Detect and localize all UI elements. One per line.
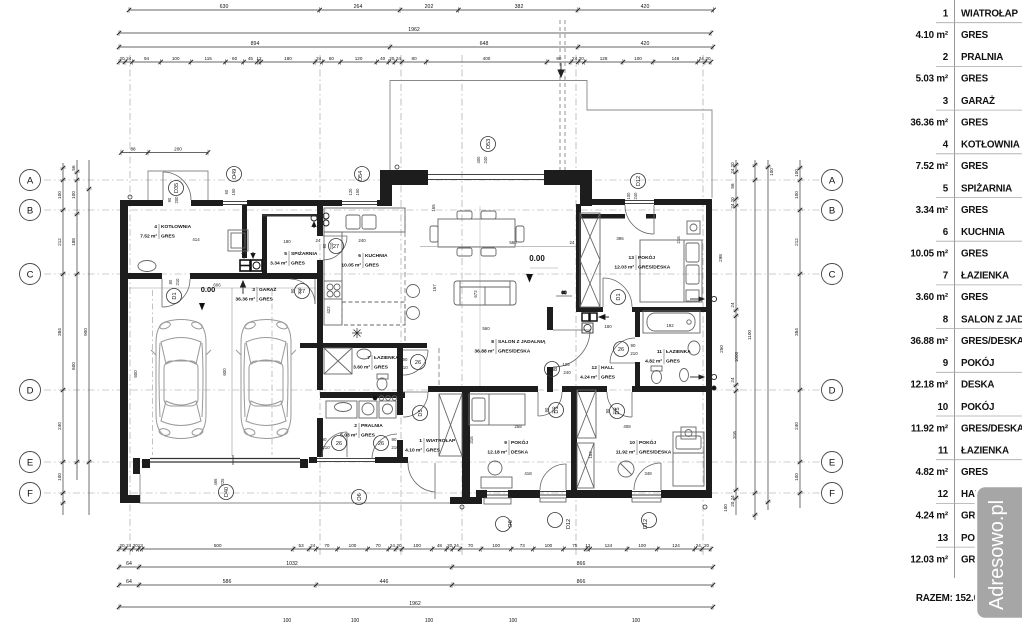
svg-text:264: 264: [354, 4, 363, 10]
svg-text:26: 26: [336, 441, 342, 447]
meter cabinet hall: [582, 313, 589, 321]
svg-text:10: 10: [938, 402, 949, 413]
svg-text:400: 400: [483, 56, 491, 61]
svg-text:100: 100: [425, 618, 434, 622]
svg-text:210: 210: [322, 445, 330, 450]
svg-text:100: 100: [638, 543, 646, 548]
sofa: [454, 281, 516, 305]
svg-text:GRES/DESKA: GRES/DESKA: [638, 265, 671, 271]
svg-text:7.52 m²: 7.52 m²: [916, 161, 949, 172]
svg-text:124: 124: [605, 543, 613, 548]
door 26 lazienka11 arc: [610, 362, 635, 364]
svg-text:240: 240: [358, 238, 366, 243]
svg-text:24: 24: [396, 56, 402, 61]
svg-text:4.82 m²: 4.82 m²: [916, 467, 949, 478]
svg-text:90: 90: [605, 408, 610, 413]
svg-text:12: 12: [585, 543, 591, 548]
svg-text:D12: D12: [636, 176, 642, 186]
grid line C: [44, 273, 820, 275]
svg-text:120: 120: [355, 56, 363, 61]
shower lazienka 7: [324, 348, 352, 374]
svg-text:80: 80: [556, 56, 562, 61]
svg-text:PRALNIA: PRALNIA: [361, 423, 383, 429]
svg-text:100: 100: [172, 56, 180, 61]
svg-text:210: 210: [175, 278, 180, 286]
svg-text:600: 600: [222, 368, 227, 376]
wall: kotlownia east wall: [242, 205, 247, 258]
wall: top wall west segment 3 (between windows O49,O54): [247, 200, 342, 206]
svg-text:ŁAZIENKA: ŁAZIENKA: [961, 446, 1009, 457]
svg-text:120: 120: [348, 188, 353, 196]
grid line A: [44, 179, 820, 181]
svg-text:210: 210: [400, 365, 408, 370]
svg-text:128: 128: [600, 56, 608, 61]
svg-text:Adresowo.pl: Adresowo.pl: [986, 500, 1008, 610]
wall: top wall west segment 2 (after door D35): [191, 200, 223, 206]
svg-text:24: 24: [730, 377, 735, 383]
wall: salon/pokoj13 divider: [576, 204, 581, 307]
svg-text:258: 258: [514, 424, 522, 429]
grid line F: [44, 492, 820, 494]
svg-text:24: 24: [572, 56, 578, 61]
svg-text:586: 586: [223, 579, 232, 585]
bed pokoj 10: [673, 432, 704, 486]
corner survey markers: [128, 195, 132, 199]
wall: exterior right wall: [706, 199, 712, 498]
wall: lazienka11 west: [635, 312, 640, 337]
svg-text:600: 600: [71, 362, 76, 370]
svg-text:GRES/DESKA: GRES/DESKA: [498, 349, 531, 355]
svg-text:384: 384: [57, 328, 62, 336]
svg-text:24: 24: [570, 240, 575, 245]
svg-text:GRES: GRES: [666, 359, 681, 365]
svg-text:100: 100: [413, 543, 421, 548]
door 26 to outside (thin): [317, 459, 347, 462]
chimney hatch salon: [580, 213, 600, 307]
svg-text:240: 240: [633, 192, 638, 200]
stove burners: [324, 281, 342, 299]
svg-text:420: 420: [641, 41, 650, 47]
svg-text:180: 180: [283, 239, 291, 244]
svg-text:20: 20: [119, 56, 125, 61]
window O49 thin lines: [223, 202, 377, 205]
svg-text:1000: 1000: [734, 351, 739, 362]
left dim chain 2: [76, 160, 78, 480]
svg-text:60: 60: [232, 56, 238, 61]
svg-text:GRES: GRES: [365, 263, 380, 269]
svg-text:GRES: GRES: [961, 161, 989, 172]
chair pokoj 10: [618, 461, 634, 477]
svg-text:SALON Z JADALNIĄ: SALON Z JADALNIĄ: [961, 314, 1022, 325]
svg-text:90: 90: [322, 437, 327, 442]
svg-text:500: 500: [214, 543, 222, 548]
GRID-LAYER: [44, 55, 820, 555]
svg-text:13: 13: [138, 543, 144, 548]
right dim chain 2: [754, 160, 756, 520]
door D12 terrace arc: [653, 205, 655, 234]
svg-text:100: 100: [349, 543, 357, 548]
svg-text:422: 422: [326, 306, 331, 314]
windows/doors in south bedroom wall: [487, 492, 661, 496]
bed pokoj 13: [640, 240, 702, 302]
car 2 in garage: [236, 320, 296, 439]
svg-text:12.03 m²: 12.03 m²: [614, 265, 634, 271]
door 26 pralnia-south arc: [346, 432, 348, 457]
svg-text:D12: D12: [643, 519, 649, 529]
svg-text:11: 11: [938, 446, 949, 457]
svg-text:250: 250: [719, 345, 724, 353]
svg-text:4.10 m²: 4.10 m²: [405, 448, 422, 454]
nightstand pokoj 13: [687, 221, 700, 234]
svg-text:24: 24: [730, 302, 735, 308]
svg-text:90: 90: [544, 407, 549, 412]
wall: garage bottom-left step: [133, 458, 140, 474]
svg-text:88: 88: [130, 147, 136, 152]
svg-text:5.03 m²: 5.03 m²: [916, 74, 949, 85]
chairs around table: [457, 211, 472, 219]
wall: salon/hall stub with D38: [547, 307, 553, 330]
svg-text:24: 24: [126, 56, 132, 61]
WALL-LAYER: [120, 170, 712, 509]
svg-text:60: 60: [562, 290, 567, 295]
svg-text:HALL: HALL: [601, 365, 614, 371]
svg-text:O53: O53: [486, 139, 492, 150]
svg-text:100: 100: [723, 504, 728, 512]
bottom dim row 3: [119, 584, 713, 586]
svg-text:GRES: GRES: [291, 261, 306, 267]
svg-text:4.10 m²: 4.10 m²: [916, 30, 949, 41]
svg-text:3.34 m²: 3.34 m²: [270, 261, 287, 267]
svg-text:ŁAZIENKA: ŁAZIENKA: [374, 355, 399, 361]
svg-text:GRES: GRES: [361, 433, 376, 439]
svg-text:210: 210: [630, 351, 638, 356]
svg-text:D40: D40: [224, 487, 230, 497]
svg-text:192: 192: [666, 323, 674, 328]
svg-text:157: 157: [432, 284, 437, 292]
porch outline at entry: [148, 171, 208, 200]
svg-text:212: 212: [794, 238, 799, 246]
wall: pokoj13 north interior: [581, 214, 625, 219]
svg-text:8: 8: [491, 339, 494, 345]
svg-text:124: 124: [672, 543, 680, 548]
svg-text:100: 100: [626, 192, 631, 200]
svg-text:200: 200: [174, 196, 179, 204]
svg-text:100: 100: [634, 56, 642, 61]
svg-text:900: 900: [83, 328, 88, 336]
svg-text:D1: D1: [616, 293, 622, 300]
svg-text:4.24 m²: 4.24 m²: [580, 375, 597, 381]
door D5 pokoj10 arc: [631, 392, 633, 417]
svg-text:GRES: GRES: [961, 117, 989, 128]
wall: pralnia/wiatrolap wall: [397, 343, 403, 375]
DIMENSION-LAYER: [57, 4, 803, 622]
svg-text:866: 866: [577, 561, 586, 567]
floor boundary kitchen/salon dashed: [404, 208, 406, 341]
car axis dashlines: [152, 290, 154, 455]
washbasin lazienka 11: [688, 341, 700, 355]
svg-text:4.24 m²: 4.24 m²: [916, 511, 949, 522]
svg-text:GRES: GRES: [374, 365, 389, 371]
svg-text:24,20: 24,20: [730, 197, 735, 209]
svg-text:100: 100: [71, 191, 76, 199]
svg-text:100: 100: [57, 191, 62, 199]
svg-text:9: 9: [504, 440, 507, 446]
svg-text:2: 2: [354, 423, 357, 429]
garage door thin lines: [150, 459, 300, 463]
heating manifold circles: [311, 213, 329, 226]
svg-text:0.00: 0.00: [529, 254, 545, 263]
svg-text:KUCHNIA: KUCHNIA: [365, 253, 388, 259]
dining table: [438, 219, 515, 247]
arrow top salon: [560, 63, 562, 77]
wall: top wall west segment 4: [377, 200, 387, 206]
furnace unit corridor: [240, 260, 262, 271]
FURNITURE: [138, 63, 717, 499]
svg-text:1962: 1962: [408, 27, 420, 33]
kotlownia washbasin: [138, 261, 156, 272]
radiator arrows right wall: [690, 298, 704, 300]
svg-text:24: 24: [699, 56, 705, 61]
wall: south wiatrolap segments: [309, 457, 317, 463]
pralnia counter: [326, 401, 357, 418]
svg-text:26: 26: [378, 441, 384, 447]
designation circles: [169, 181, 184, 196]
svg-text:4: 4: [154, 224, 157, 230]
top dim row 4: [119, 61, 711, 63]
svg-text:94: 94: [144, 56, 150, 61]
svg-text:606: 606: [213, 283, 221, 288]
wall: spizarnia north thin: [262, 214, 320, 217]
door D35 entrance arc: [434, 463, 436, 499]
svg-text:1: 1: [943, 9, 949, 20]
svg-text:D1: D1: [172, 292, 178, 299]
grid line E: [44, 461, 820, 463]
top dim row 2: [119, 32, 711, 34]
svg-text:ŁAZIENKA: ŁAZIENKA: [961, 271, 1009, 282]
driveway apron line: [140, 474, 474, 503]
svg-text:E: E: [27, 457, 33, 468]
door 26 lazienka7 arc: [403, 349, 428, 351]
svg-text:POKÓJ: POKÓJ: [638, 253, 655, 261]
washbasin lazienka 7: [357, 349, 371, 359]
wardrobe wiatrolap hatch: [439, 394, 462, 456]
legend table: [954, 0, 956, 578]
svg-text:60: 60: [329, 56, 335, 61]
svg-text:408: 408: [623, 424, 631, 429]
svg-text:200: 200: [174, 147, 182, 152]
boiler kotlownia: [228, 230, 248, 251]
svg-text:212: 212: [57, 238, 62, 246]
svg-text:9: 9: [943, 358, 949, 369]
svg-text:D35: D35: [174, 183, 180, 193]
svg-text:12.18 m²: 12.18 m²: [910, 380, 949, 391]
svg-text:10.05 m²: 10.05 m²: [341, 263, 361, 269]
kitchen counter left: [324, 232, 342, 325]
svg-text:13: 13: [629, 255, 635, 261]
door D1 pokoj9 arc: [537, 392, 539, 416]
svg-text:40: 40: [380, 56, 386, 61]
svg-text:PRALNIA: PRALNIA: [961, 52, 1003, 63]
left dim chain 3: [88, 160, 90, 515]
svg-text:O6: O6: [357, 493, 363, 500]
svg-text:60: 60: [224, 189, 229, 194]
svg-text:ŁAZIENKA: ŁAZIENKA: [666, 349, 691, 355]
svg-text:O54: O54: [358, 171, 364, 182]
svg-text:5: 5: [284, 251, 287, 257]
svg-text:GRES: GRES: [961, 292, 989, 303]
door D35 porch arc: [162, 172, 164, 200]
svg-text:240: 240: [483, 156, 488, 164]
svg-text:GRES: GRES: [961, 30, 989, 41]
wall: lazienka7/pralnia divider: [320, 392, 405, 398]
svg-text:D5: D5: [418, 409, 424, 416]
svg-text:560: 560: [509, 240, 517, 245]
svg-text:100: 100: [769, 168, 774, 176]
svg-text:165: 165: [431, 204, 436, 212]
toilet lazienka 11: [651, 366, 662, 371]
svg-text:600: 600: [133, 370, 138, 378]
svg-text:GARAŻ: GARAŻ: [259, 286, 276, 293]
door 26 pralnia-wiatrolap arc: [372, 434, 397, 459]
svg-text:C: C: [27, 269, 34, 280]
svg-text:152: 152: [588, 451, 593, 459]
svg-text:210: 210: [612, 407, 617, 415]
svg-text:GRES: GRES: [161, 234, 176, 240]
watermark: [976, 486, 1022, 619]
wardrobe pokoj10 hatch: [577, 390, 596, 438]
svg-text:64: 64: [126, 561, 132, 567]
svg-text:1: 1: [419, 438, 422, 444]
door 27 kitchen arc: [323, 235, 347, 237]
chimney dashed vents: [560, 20, 565, 172]
wall: lazienka11 north: [640, 307, 706, 312]
lamp asterisk kitchen: [352, 328, 362, 338]
LEGEND: [910, 0, 1022, 604]
svg-text:866: 866: [577, 579, 586, 585]
grid bubbles: [20, 170, 41, 191]
svg-text:3: 3: [252, 287, 255, 293]
svg-text:13: 13: [938, 533, 949, 544]
svg-text:396: 396: [616, 236, 624, 241]
svg-text:WIATROŁAP: WIATROŁAP: [961, 9, 1018, 20]
wall: salon bay left corner: [380, 170, 392, 206]
svg-text:B: B: [27, 205, 33, 216]
svg-text:SPIŻARNIA: SPIŻARNIA: [961, 183, 1012, 194]
svg-text:240: 240: [57, 422, 62, 430]
svg-text:1100: 1100: [747, 330, 752, 340]
svg-text:11: 11: [657, 349, 662, 355]
svg-text:1962: 1962: [409, 601, 421, 607]
svg-text:316: 316: [469, 436, 474, 444]
svg-text:O6: O6: [508, 520, 514, 527]
svg-text:C: C: [829, 269, 836, 280]
window sills south: [484, 498, 661, 504]
svg-text:75: 75: [572, 543, 578, 548]
svg-text:466: 466: [213, 478, 218, 486]
grid line D: [44, 389, 820, 391]
corner survey markers south: [460, 505, 464, 509]
vertical gridlines: [129, 55, 131, 555]
svg-text:36.36 m²: 36.36 m²: [235, 297, 255, 303]
right dim chain 1: [735, 160, 737, 515]
svg-text:70: 70: [376, 543, 382, 548]
svg-text:202: 202: [425, 4, 434, 10]
right dim chain 4: [799, 160, 801, 508]
svg-text:20: 20: [705, 56, 711, 61]
svg-text:210: 210: [329, 242, 334, 250]
toilet lazienka 7: [377, 374, 388, 379]
wall: exterior left wall: [120, 200, 128, 503]
svg-text:GRES: GRES: [961, 467, 989, 478]
svg-text:90: 90: [167, 197, 172, 202]
svg-text:7: 7: [943, 271, 949, 282]
svg-text:3.34 m²: 3.34 m²: [916, 205, 949, 216]
svg-text:24: 24: [390, 543, 396, 548]
svg-text:100: 100: [632, 618, 641, 622]
wall: south bedroom wing segments: [476, 490, 487, 498]
svg-text:3.60 m²: 3.60 m²: [353, 365, 370, 371]
svg-text:20: 20: [389, 56, 395, 61]
svg-text:70: 70: [324, 543, 330, 548]
svg-text:RAZEM: 152.05: RAZEM: 152.05: [916, 593, 985, 604]
svg-text:GRES: GRES: [961, 74, 989, 85]
arrow garage entry: [242, 281, 244, 294]
bottom dim row 1: [119, 548, 711, 550]
grid line B: [44, 209, 820, 211]
svg-text:3: 3: [943, 96, 949, 107]
svg-text:26: 26: [618, 347, 624, 353]
svg-text:240: 240: [563, 370, 571, 375]
door D12 glazing top: [625, 201, 654, 204]
svg-text:POKÓJ: POKÓJ: [511, 438, 528, 446]
svg-text:48: 48: [437, 543, 443, 548]
svg-text:672: 672: [473, 290, 478, 298]
svg-text:90: 90: [290, 288, 295, 293]
door D12 pokoj10 arc: [660, 463, 662, 490]
garage dim guides: [129, 287, 316, 289]
svg-text:24,20: 24,20: [730, 162, 735, 174]
svg-text:414: 414: [192, 237, 200, 242]
kitchen south counter dashed: [342, 302, 405, 325]
svg-text:56: 56: [71, 165, 76, 171]
svg-text:80: 80: [412, 56, 418, 61]
svg-text:DESKA: DESKA: [511, 450, 529, 456]
svg-text:53: 53: [299, 543, 305, 548]
svg-text:115: 115: [205, 56, 213, 61]
svg-text:12: 12: [256, 56, 262, 61]
svg-text:225: 225: [220, 478, 225, 486]
svg-text:D: D: [27, 385, 34, 396]
door D12 pokoj9 arc: [565, 464, 567, 490]
svg-text:24: 24: [454, 543, 460, 548]
svg-text:D: D: [829, 385, 836, 396]
svg-text:8: 8: [943, 314, 949, 325]
svg-text:298: 298: [718, 254, 723, 262]
wall: top wall west segment 1: [120, 200, 163, 206]
svg-text:6: 6: [358, 253, 361, 259]
svg-text:SPIŻARNIA: SPIŻARNIA: [291, 250, 318, 257]
svg-text:20: 20: [396, 543, 402, 548]
svg-text:630: 630: [220, 4, 229, 10]
svg-text:148: 148: [672, 56, 680, 61]
svg-text:100: 100: [545, 543, 553, 548]
svg-text:100: 100: [57, 473, 62, 481]
svg-text:100: 100: [794, 169, 799, 177]
top dim row 3: [119, 46, 713, 48]
svg-text:64: 64: [126, 579, 132, 585]
desk chair pokoj 9: [488, 461, 502, 475]
left dim chain 1: [62, 163, 64, 515]
